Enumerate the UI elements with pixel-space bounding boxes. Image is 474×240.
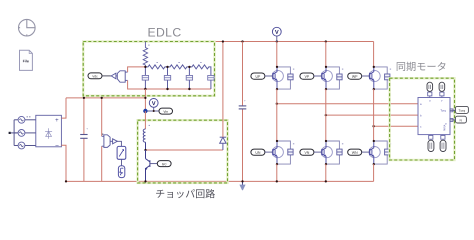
AC source VC [14, 142, 36, 149]
wire rectifier minus to bottom rail [61, 145, 66, 181]
sensor VS1 input triangle [111, 73, 116, 79]
phase W line [374, 125, 418, 127]
gate wire to label [150, 163, 157, 165]
svg-text:−: − [55, 143, 59, 150]
switch node wire to diode [146, 149, 223, 151]
dc bus voltage sensor branch wire [101, 98, 103, 181]
probe block P2 [118, 166, 124, 178]
leg U upper cell [251, 42, 294, 142]
junction: rectifier minus / bottom rail [65, 180, 67, 182]
wire inductor to switch node [145, 142, 147, 150]
EDLC capacitor CE2 [164, 67, 170, 89]
EDLC dashed box [83, 42, 214, 96]
svg-text:+: + [55, 118, 59, 124]
dc bus wire (mid, y=98) [66, 97, 145, 99]
junction: leg U / top rail [276, 40, 278, 42]
motor right wire Torq [450, 109, 455, 111]
EDLC series resistor R0 (vertical) [143, 42, 147, 67]
motor label [397, 62, 446, 71]
node wire to label [145, 110, 159, 112]
wire VS1 top to ladder [128, 67, 146, 72]
motor dashed box [390, 78, 455, 160]
wire sensor VS2 to probe blocks [117, 141, 122, 146]
bottom rail wire [66, 180, 374, 182]
node label stadium Vo [159, 108, 173, 114]
junction: C2 branch / top rail [241, 40, 243, 42]
wire label to sensor VS1 [102, 75, 111, 77]
EDLC capacitor CE4 [208, 76, 214, 90]
leg U lower cell [251, 140, 294, 183]
capacitor C2 plates [239, 106, 247, 109]
ladder resistor R2 [168, 65, 190, 69]
motor top pin 2 [440, 92, 444, 97]
voltage sensor VS2 (dc bus) [102, 135, 118, 148]
EDLC capacitor CE3 [186, 67, 192, 89]
chopper label [156, 189, 215, 198]
svg-text:PARA: PARA [444, 124, 447, 131]
Torq label stadium [455, 106, 468, 113]
svg-text:+: + [244, 99, 246, 103]
junction: phase V tap [325, 114, 327, 116]
junction: phase U tap [276, 103, 278, 105]
cell junction dots [276, 66, 278, 68]
wire VS1 bottom to EDLC bottom rail [128, 80, 211, 89]
gate label UP [251, 73, 265, 79]
n label stadium [455, 116, 466, 123]
phase U line [277, 103, 418, 105]
AC source VB [14, 130, 36, 137]
junction: leg V / top rail [325, 40, 327, 42]
junction: diode branch / top rail [222, 40, 224, 42]
transistor UP [272, 67, 283, 89]
inductor L1 [143, 129, 145, 142]
three-phase source terminal dot [9, 132, 19, 134]
rectifier BD1 [36, 115, 62, 150]
leg V lower cell [300, 140, 343, 183]
dc link capacitor C2 branch [242, 42, 244, 182]
motor bottom pin 1 [429, 135, 433, 140]
capacitor C1 plates [80, 135, 87, 139]
motor right pin squares [450, 109, 453, 112]
EDLC ladder junction dots [144, 66, 190, 91]
motor top label stadium 2 [439, 82, 445, 91]
wire rectifier plus to top bus [61, 98, 66, 118]
ladder resistor R3 [189, 65, 211, 75]
antiparallel diode branch [277, 67, 290, 89]
blue node dot [143, 109, 147, 113]
motor right wire n [450, 119, 455, 121]
chopper dashed box [138, 120, 228, 183]
ladder resistor R1 [145, 65, 167, 69]
gate label stadium [157, 161, 171, 167]
EDLC capacitor CE1 [142, 67, 148, 89]
wire rail to cell [276, 42, 278, 67]
sensor VS1 body [116, 71, 128, 82]
diode symbol inside rectifier [45, 128, 52, 139]
clock icon [19, 19, 36, 36]
EDLC source label stadium [88, 73, 102, 79]
probe block P1 [117, 146, 126, 159]
file icon [20, 50, 33, 70]
chopper bottom junction dot [144, 180, 146, 182]
wire rail to cell [325, 42, 327, 67]
leg W lower cell [348, 140, 391, 182]
voltmeter V1 [149, 99, 158, 112]
wire rail to cell [373, 42, 375, 67]
V tap junction dot [153, 110, 155, 112]
polarity dots [27, 116, 28, 117]
leg V upper cell [300, 42, 343, 142]
motor top label stadium 1 [427, 82, 433, 91]
junction EDLC/bus [144, 97, 146, 99]
phase V line [326, 114, 418, 116]
AC source VA [14, 116, 36, 123]
leg W upper cell [348, 42, 391, 142]
motor bottom label stadium 2 [440, 140, 446, 151]
motor bottom label stadium 1 [428, 140, 434, 151]
voltmeter V2 on dc bus [272, 27, 281, 41]
svg-text:EDLC: EDLC [147, 25, 181, 39]
dc link capacitor C1 branch wire [83, 98, 85, 181]
wire diode to top rail [222, 42, 224, 138]
junction: phase W tap [372, 125, 374, 127]
top rail wire [145, 41, 373, 43]
svg-text:Torq: Torq [440, 109, 446, 113]
chopper diode D1 [220, 137, 226, 150]
wire P1 to P2 [121, 159, 123, 165]
source phase bus wire [13, 120, 15, 146]
wire EDLC bottom rail down to chopper node [144, 89, 146, 111]
wire cell down across taps [276, 89, 278, 141]
resistor value specks [148, 45, 201, 63]
wire node to inductor [144, 111, 146, 129]
motor top pin 1 [428, 92, 432, 97]
ground [239, 181, 245, 190]
svg-text:+: + [86, 126, 88, 130]
chopper transistor Q1 [146, 150, 150, 181]
motor PMSM block [418, 98, 450, 135]
motor bottom pin 2 [441, 135, 445, 140]
